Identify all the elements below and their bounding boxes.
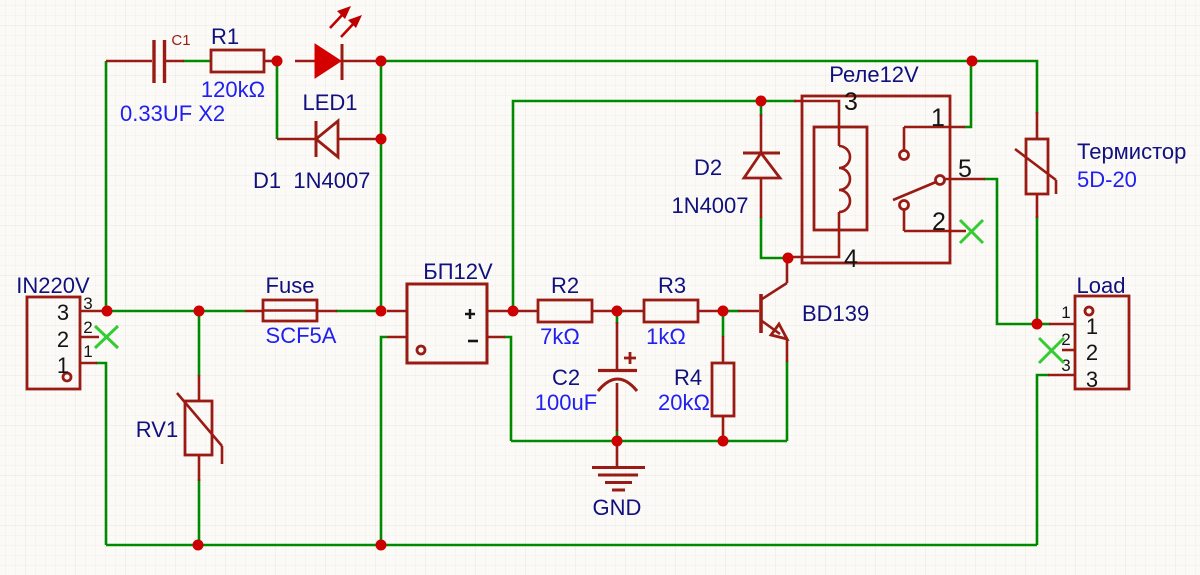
svg-text:Термистор: Термистор (1077, 139, 1186, 164)
svg-text:GND: GND (593, 495, 642, 520)
svg-text:4: 4 (844, 245, 858, 273)
wire AC live left vertical (105, 61, 108, 311)
pin 1 (1049, 323, 1075, 326)
wire neutral from IN220V pin1 (96, 363, 106, 545)
svg-text:RV1: RV1 (136, 417, 178, 442)
svg-text:1kΩ: 1kΩ (646, 324, 686, 349)
node D1 out (376, 134, 387, 145)
pin 3 wire into coil (794, 101, 839, 146)
wire fuse to node B (336, 310, 386, 313)
capacitor C1 (106, 32, 191, 83)
svg-text:IN220V: IN220V (16, 273, 90, 298)
svg-text:БП12V: БП12V (423, 259, 493, 284)
no-connect X pin2 (960, 220, 983, 243)
svg-text:0.33UF X2: 0.33UF X2 (120, 101, 225, 126)
wire bottom neutral rail (106, 544, 1037, 547)
pin 5 common contact (936, 176, 945, 185)
svg-text:3: 3 (1086, 367, 1098, 392)
wire R4 top stub (722, 311, 725, 337)
wire RV1 top (198, 311, 201, 376)
connector Load (1039, 273, 1129, 392)
svg-text:20kΩ: 20kΩ (658, 390, 710, 415)
resistor R1 (201, 24, 277, 102)
wire base stub (723, 310, 739, 313)
pin 3 (1048, 374, 1075, 377)
node base (718, 306, 729, 317)
ground (592, 441, 645, 520)
svg-text:C2: C2 (552, 365, 580, 390)
switch lever (893, 182, 936, 200)
wire relay pin5 to load pin1 node (984, 179, 1037, 324)
coil frame (814, 127, 867, 230)
svg-text:1: 1 (57, 353, 69, 378)
pin 1 fixed contact (904, 126, 965, 129)
node C2 gnd (612, 436, 623, 447)
wire gnd rail (511, 440, 787, 443)
transistor Q1 BD139 (738, 260, 869, 362)
movable contact to pin 2 (900, 201, 909, 210)
svg-text:3: 3 (57, 300, 69, 325)
wire C2 top stub (616, 311, 619, 324)
wire load pin3 down to neutral rail (1037, 375, 1049, 545)
LED LED1 (295, 6, 381, 115)
node IN pin3 (102, 306, 113, 317)
pin 2 (80, 336, 99, 339)
node 12V+ (508, 306, 519, 317)
node neutral riser (376, 540, 387, 551)
svg-text:5D-20: 5D-20 (1077, 167, 1137, 192)
no-connect X pin2 (95, 326, 118, 348)
svg-text:7kΩ: 7kΩ (540, 324, 580, 349)
wire D2 bottom to relay pin4 node (761, 217, 788, 258)
svg-text:D1 1N4007: D1 1N4007 (253, 168, 370, 193)
wire live to fuse (106, 310, 245, 313)
svg-text:2: 2 (1086, 340, 1098, 365)
svg-text:LED1: LED1 (302, 90, 357, 115)
svg-text:1: 1 (931, 104, 945, 132)
wire neutral up to PSU (381, 337, 387, 545)
svg-text:Load: Load (1077, 273, 1126, 298)
node coil+ D2 (756, 96, 767, 107)
resistor R3 (623, 273, 718, 349)
wire node B vertical (LED out down to fuse output) (380, 61, 383, 311)
wire C2 bottom stub (616, 430, 619, 441)
svg-text:120kΩ: 120kΩ (201, 77, 265, 102)
resistor R2 (513, 273, 617, 349)
connector IN220V (16, 273, 118, 389)
node R2-C2-R3 (612, 306, 623, 317)
svg-text:C1: C1 (171, 32, 190, 49)
svg-text:R3: R3 (658, 273, 686, 298)
resistor R4 (658, 336, 734, 441)
svg-text:Реле12V: Реле12V (829, 62, 919, 87)
svg-text:BD139: BD139 (802, 301, 869, 326)
wire load pin1 stub (1037, 323, 1050, 326)
no-connect X pin2 (1039, 338, 1064, 363)
svg-text:100uF: 100uF (535, 390, 597, 415)
svg-text:1: 1 (83, 342, 92, 361)
wire emitter down (786, 361, 789, 441)
node RV1 bottom (193, 540, 204, 551)
node R4 gnd (718, 436, 729, 447)
pin 2 (1062, 349, 1075, 352)
pin 1 (80, 362, 97, 365)
node top rail relay pin1 (967, 56, 978, 67)
svg-text:5: 5 (958, 155, 972, 183)
wire top rail after LED (381, 61, 1037, 114)
svg-text:R2: R2 (551, 273, 579, 298)
svg-text:R4: R4 (674, 365, 702, 390)
svg-text:3: 3 (83, 294, 92, 313)
varistor RV1 (136, 375, 222, 481)
pin 4 wire from coil (788, 212, 839, 257)
svg-text:1N4007: 1N4007 (671, 193, 748, 218)
power supply block U-BP12V (387, 259, 513, 363)
wire R3 out stub (617, 310, 624, 313)
node load pin1 (1032, 319, 1043, 330)
svg-text:2: 2 (83, 318, 92, 337)
wire 12V+ vertical to relay coil (513, 101, 796, 311)
wire 12V- from PSU down to gnd rail (504, 337, 511, 441)
svg-text:1: 1 (1086, 314, 1098, 339)
wire node A vertical (R1 out to D1) (276, 61, 279, 139)
thermistor RT1 (1015, 112, 1186, 218)
wire C1 to R1 (183, 60, 211, 63)
svg-text:3: 3 (844, 88, 858, 116)
pin 3 (80, 310, 102, 313)
node coil- collector (783, 253, 794, 264)
node RV1 top (194, 306, 205, 317)
svg-text:R1: R1 (211, 24, 239, 49)
node LED out (376, 56, 387, 67)
svg-text:2: 2 (57, 327, 69, 352)
fuse Fuse (245, 273, 337, 348)
wire relay pin1 up to top rail (964, 61, 971, 127)
capacitor C2 (535, 322, 637, 431)
diode D1 (253, 121, 381, 193)
wire thermistor bottom to load node (1036, 216, 1039, 324)
wire RV1 bottom (198, 479, 201, 545)
svg-text:1: 1 (1061, 303, 1070, 322)
relay K1 Rele12V (788, 62, 985, 273)
svg-text:SCF5A: SCF5A (266, 323, 337, 348)
node R1-LED (272, 56, 283, 67)
coil windings (839, 146, 850, 212)
node fuse out (376, 306, 387, 317)
svg-text:D2: D2 (694, 155, 722, 180)
svg-text:Fuse: Fuse (266, 273, 315, 298)
diode D2 (671, 114, 780, 218)
wire D2 top stub (760, 101, 763, 116)
svg-text:2: 2 (932, 208, 946, 236)
svg-text:3: 3 (1061, 356, 1070, 375)
